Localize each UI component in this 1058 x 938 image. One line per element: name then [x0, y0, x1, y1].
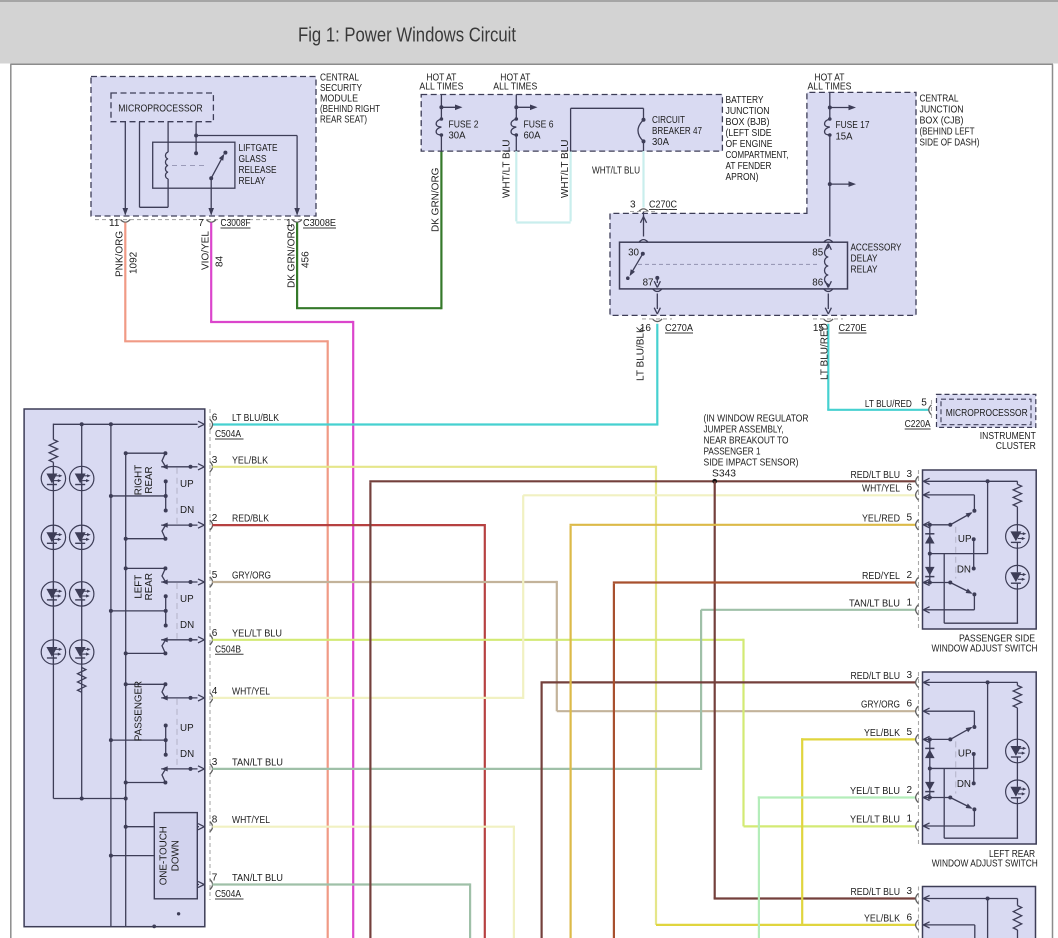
wire WHT/LT BLU CB47 to C270C: [643, 141, 645, 151]
UP/DN center pole: [164, 724, 168, 728]
svg-text:WHT/LT BLU: WHT/LT BLU: [502, 139, 513, 198]
wire PNK/ORG 1092 from pin 11: [124, 223, 126, 342]
connector C270E: [824, 319, 834, 322]
connector pin 6 YEL/BLK: [916, 920, 919, 930]
svg-text:3: 3: [630, 200, 636, 211]
svg-text:RELAY: RELAY: [851, 265, 878, 276]
svg-text:ACCESSORY: ACCESSORY: [851, 243, 902, 254]
third switch internal rail: [928, 898, 1018, 900]
svg-text:DN: DN: [957, 779, 971, 790]
svg-text:YEL/LT BLU: YEL/LT BLU: [850, 786, 900, 797]
toggle levers: [163, 566, 167, 570]
toggle output lines: [161, 466, 197, 468]
svg-text:456: 456: [300, 251, 311, 268]
svg-text:FUSE 17: FUSE 17: [836, 120, 870, 131]
svg-text:BREAKER 47: BREAKER 47: [652, 126, 702, 137]
svg-text:LT BLU/BLK: LT BLU/BLK: [232, 413, 279, 424]
switch internal feed rail: [928, 480, 1018, 482]
driver switch internal feed rail: [53, 423, 197, 425]
svg-text:SIDE OF DASH): SIDE OF DASH): [920, 138, 980, 149]
svg-text:(IN WINDOW REGULATOR: (IN WINDOW REGULATOR: [704, 414, 809, 425]
svg-text:11: 11: [109, 218, 120, 229]
liftgate relay switch lever: [211, 156, 223, 178]
svg-text:6: 6: [212, 413, 218, 424]
svg-text:WHT/LT BLU: WHT/LT BLU: [560, 139, 571, 198]
svg-text:PASSENGER 1: PASSENGER 1: [704, 447, 761, 458]
LED return: [1016, 804, 1018, 839]
central junction box CJB and accessory delay relay outline: [610, 92, 916, 315]
svg-text:7: 7: [212, 873, 218, 884]
relay pin 30 contact and lever: [641, 252, 645, 256]
wire VIO/YEL 84 from pin 7: [210, 223, 212, 323]
mechanical linkage dashed: [176, 699, 178, 768]
mid horizontal: [930, 553, 988, 555]
connector pin 7 TAN/LT BLU: [210, 879, 213, 889]
svg-text:REAR: REAR: [144, 466, 155, 493]
wire YEL/LT BLU driver pin 6 to left rear pin 1: [212, 639, 743, 641]
connector pin 1 YEL/LT BLU: [916, 821, 919, 831]
microprocessor U1 box (CSM): [111, 93, 213, 122]
svg-text:UP: UP: [180, 594, 194, 605]
svg-text:LEFT: LEFT: [134, 575, 145, 599]
connector pin 6 YEL/LT BLU: [210, 635, 213, 645]
pin 6 wire to top lever pivot: [928, 494, 974, 496]
svg-text:YEL/LT BLU: YEL/LT BLU: [232, 628, 282, 639]
svg-text:BOX (BJB): BOX (BJB): [726, 117, 770, 128]
relay internal linkage dashed: [638, 263, 820, 265]
svg-text:CLUSTER: CLUSTER: [996, 441, 1036, 452]
svg-text:YEL/BLK: YEL/BLK: [864, 913, 900, 924]
switch group LEFT feeds: [126, 567, 166, 569]
UP DN pole: [972, 752, 976, 756]
svg-text:3: 3: [212, 757, 218, 768]
wire TAN/LT BLU driver pin 7: [212, 883, 470, 885]
relay coil pins 85/86: [824, 240, 833, 243]
one-touch down outputs: [196, 826, 198, 828]
svg-text:15A: 15A: [836, 131, 853, 142]
svg-text:WINDOW ADJUST SWITCH: WINDOW ADJUST SWITCH: [932, 643, 1038, 654]
bottom toggle lever: [950, 798, 971, 809]
svg-text:S343: S343: [712, 469, 736, 480]
switch group PASSENGER feeds: [126, 683, 166, 685]
connector pin 3 RED/LT BLU: [916, 893, 919, 903]
connector line C3008 dashed: [95, 219, 316, 221]
connector pin 5 GRY/ORG: [210, 577, 213, 587]
svg-text:RED/YEL: RED/YEL: [862, 571, 900, 582]
pivot to pin 1: [973, 594, 975, 609]
mid horizontal: [930, 767, 988, 769]
svg-text:6: 6: [907, 482, 913, 493]
svg-text:UP: UP: [958, 534, 972, 545]
svg-text:5: 5: [212, 570, 218, 581]
svg-text:MODULE: MODULE: [320, 93, 358, 104]
wire RED/BLK driver pin 2: [212, 524, 485, 526]
svg-text:REAR: REAR: [144, 573, 155, 600]
mechanical linkage dashed: [176, 468, 178, 524]
toggle output lines: [161, 581, 197, 583]
mid feed vertical: [943, 769, 945, 838]
illumination LEDs: [1006, 525, 1030, 549]
svg-text:FUSE 2: FUSE 2: [449, 119, 479, 130]
svg-text:UP: UP: [180, 479, 194, 490]
junction dot on bottom edge: [152, 925, 156, 929]
svg-text:3: 3: [907, 469, 913, 480]
svg-text:CENTRAL: CENTRAL: [320, 72, 359, 83]
svg-text:DK GRN/ORG: DK GRN/ORG: [431, 167, 442, 232]
svg-text:GRY/ORG: GRY/ORG: [232, 571, 271, 582]
svg-text:AT FENDER: AT FENDER: [726, 161, 772, 172]
illumination resistor R2: [78, 668, 86, 693]
header bar: [0, 0, 1058, 64]
wire relay common to pin 7: [210, 178, 212, 214]
connector C270A: [653, 319, 663, 322]
svg-text:C270E: C270E: [839, 323, 867, 334]
svg-text:(LEFT SIDE: (LEFT SIDE: [726, 128, 772, 139]
switch group RIGHT feeds: [126, 452, 166, 454]
LED return: [1016, 589, 1018, 623]
svg-text:4: 4: [212, 686, 218, 697]
svg-text:30: 30: [628, 247, 639, 258]
svg-text:TAN/LT BLU: TAN/LT BLU: [232, 757, 283, 768]
driver master window switch box: [24, 409, 205, 927]
battery vertical from rail: [987, 481, 989, 553]
illumination LEDs: [1006, 739, 1030, 763]
svg-text:GLASS: GLASS: [239, 154, 267, 165]
one-touch down feeds: [126, 826, 155, 828]
svg-text:3: 3: [212, 455, 218, 466]
connector pin 6 LT BLU/BLK: [210, 419, 213, 429]
svg-text:85: 85: [812, 247, 823, 258]
mechanical linkage dashed: [955, 527, 957, 579]
fuse F17: [825, 119, 830, 135]
liftgate relay linkage dashed: [172, 165, 208, 167]
svg-text:YEL/LT BLU: YEL/LT BLU: [850, 815, 900, 826]
connector C504 dashed line: [209, 409, 211, 900]
svg-text:C504A: C504A: [215, 889, 241, 900]
svg-text:CIRCUIT: CIRCUIT: [652, 115, 685, 126]
svg-text:DOWN: DOWN: [171, 840, 182, 871]
svg-text:PNK/ORG: PNK/ORG: [115, 231, 126, 277]
wire micro to coil loop: [139, 122, 141, 208]
bottom toggle lever: [950, 583, 971, 594]
stray junction dot: [177, 912, 180, 915]
UP DN pole: [972, 537, 976, 541]
wire micro to relay contact: [195, 122, 197, 154]
svg-text:JUNCTION: JUNCTION: [726, 106, 770, 117]
svg-text:DELAY: DELAY: [851, 254, 878, 265]
svg-text:RELEASE: RELEASE: [239, 165, 277, 176]
svg-text:C3008F: C3008F: [221, 218, 251, 229]
svg-text:MICROPROCESSOR: MICROPROCESSOR: [118, 104, 202, 115]
svg-text:RELAY: RELAY: [239, 176, 266, 187]
svg-text:87: 87: [643, 277, 654, 288]
wire micro to pin 11: [124, 122, 126, 215]
svg-text:(BEHIND RIGHT: (BEHIND RIGHT: [320, 104, 380, 115]
central security module box: [91, 77, 316, 217]
liftgate relay coil L1: [167, 122, 169, 153]
svg-text:MICROPROCESSOR: MICROPROCESSOR: [946, 408, 1028, 419]
connector pin 3 YEL/BLK: [210, 462, 213, 472]
svg-text:RED/BLK: RED/BLK: [232, 514, 269, 525]
illumination LEDs D1-D8: [41, 466, 65, 490]
connector pin 6 WHT/YEL: [916, 490, 919, 500]
battery junction box BJB: [421, 95, 722, 152]
connector pin 2 YEL/LT BLU: [916, 792, 919, 802]
connector pin 6 GRY/ORG: [916, 706, 919, 716]
connector pin 5 YEL/BLK: [916, 734, 919, 744]
svg-text:C504B: C504B: [215, 644, 241, 655]
svg-text:C3008E: C3008E: [303, 218, 336, 229]
svg-text:30A: 30A: [652, 137, 669, 148]
top toggle lever: [950, 728, 971, 740]
svg-text:2: 2: [907, 785, 913, 796]
svg-text:OF ENGINE: OF ENGINE: [726, 139, 773, 150]
third switch resistor: [1013, 906, 1021, 931]
wire YEL/BLK left rear pin 5 branch: [801, 738, 803, 926]
wire GRY/ORG driver pin 5 to left rear pin 6: [212, 581, 557, 583]
connector pin 2 RED/BLK: [210, 520, 213, 530]
svg-text:30A: 30A: [449, 131, 466, 142]
diode chain: [929, 739, 931, 797]
fuse F17 feed wire: [829, 92, 831, 119]
fuse F6 feed wire: [515, 95, 517, 120]
pivot to pin 1: [973, 809, 975, 826]
connector C3008E pin 1: [292, 220, 302, 223]
toggle levers: [163, 451, 167, 455]
svg-text:REAR SEAT): REAR SEAT): [320, 114, 367, 125]
pin 2 wire: [928, 582, 950, 584]
svg-text:C270C: C270C: [649, 200, 677, 211]
accessory delay relay box: [620, 242, 848, 289]
svg-text:YEL/BLK: YEL/BLK: [864, 728, 900, 739]
connector pin 8 WHT/YEL: [210, 822, 213, 832]
illumination resistor R1: [52, 424, 54, 440]
circuit breaker CB47: [638, 120, 644, 142]
svg-text:DN: DN: [180, 620, 194, 631]
svg-text:UP: UP: [180, 723, 194, 734]
circuit breaker CB47 feed wire: [515, 151, 517, 221]
relay pin 87 wire to C270A: [656, 294, 658, 310]
svg-text:86: 86: [812, 277, 823, 288]
svg-text:RIGHT: RIGHT: [134, 465, 145, 495]
connector C270C: [639, 209, 649, 212]
svg-text:WHT/YEL: WHT/YEL: [862, 483, 900, 494]
driver switch pivot bus: [125, 453, 127, 926]
svg-text:YEL/RED: YEL/RED: [862, 513, 900, 524]
svg-text:PASSENGER: PASSENGER: [133, 681, 144, 741]
wire WHT/YEL driver pin 4 to passenger pin 6: [212, 697, 523, 699]
svg-text:CENTRAL: CENTRAL: [920, 94, 959, 105]
svg-text:LT BLU/BLK: LT BLU/BLK: [636, 326, 647, 381]
relay pin 87: [655, 276, 659, 280]
connector pin 5 YEL/RED: [916, 520, 919, 530]
svg-text:COMPARTMENT,: COMPARTMENT,: [726, 150, 789, 161]
pin 5 wire: [928, 524, 950, 526]
toggle levers: [163, 682, 167, 686]
illumination resistor: [1016, 481, 1018, 484]
instrument cluster box: [937, 394, 1036, 427]
svg-text:BATTERY: BATTERY: [726, 95, 764, 106]
svg-text:LIFTGATE: LIFTGATE: [239, 143, 278, 154]
svg-text:5: 5: [907, 512, 913, 523]
LED column 2 wire: [81, 424, 83, 798]
svg-text:WHT/LT BLU: WHT/LT BLU: [592, 166, 640, 177]
svg-text:RED/LT BLU: RED/LT BLU: [851, 671, 901, 682]
svg-text:8: 8: [212, 815, 218, 826]
svg-text:SIDE IMPACT SENSOR): SIDE IMPACT SENSOR): [704, 458, 799, 469]
svg-text:C220A: C220A: [905, 419, 931, 430]
svg-text:C270A: C270A: [665, 323, 693, 334]
svg-text:WINDOW ADJUST SWITCH: WINDOW ADJUST SWITCH: [932, 859, 1038, 870]
svg-text:ALL TIMES: ALL TIMES: [493, 82, 537, 93]
svg-text:6: 6: [907, 699, 913, 710]
svg-text:3: 3: [907, 670, 913, 681]
svg-text:1092: 1092: [129, 251, 140, 274]
svg-text:FUSE 6: FUSE 6: [524, 119, 554, 130]
svg-text:1: 1: [907, 814, 913, 825]
connector pin 3 RED/LT BLU: [916, 677, 919, 687]
LED column 1 wire: [52, 466, 54, 798]
svg-text:SECURITY: SECURITY: [320, 83, 362, 94]
svg-text:NEAR BREAKOUT TO: NEAR BREAKOUT TO: [704, 436, 789, 447]
svg-text:Fig 1: Power Windows Circuit: Fig 1: Power Windows Circuit: [298, 23, 516, 46]
wire RED/LT BLU trunk to passenger pin 3: [369, 482, 371, 938]
instrument cluster microprocessor U2 box: [941, 399, 1031, 425]
svg-text:3: 3: [907, 886, 913, 897]
wire TAN/LT BLU driver pin 3 to passenger pin 1: [212, 768, 701, 770]
svg-text:YEL/BLK: YEL/BLK: [232, 455, 268, 466]
switch internal feed rail: [928, 681, 1018, 683]
right rear window adjust switch box (cut off): [923, 887, 1036, 938]
svg-text:RED/LT BLU: RED/LT BLU: [851, 887, 901, 898]
svg-text:APRON): APRON): [726, 172, 759, 183]
svg-text:WHT/YEL: WHT/YEL: [232, 815, 270, 826]
fuse F2: [436, 119, 441, 135]
toggle output lines: [161, 697, 197, 699]
fuse 17 output wire with branch arrow: [829, 135, 831, 237]
wire LT BLU/RED C270E to instrument cluster: [827, 324, 829, 410]
svg-text:JUMPER ASSEMBLY,: JUMPER ASSEMBLY,: [704, 425, 784, 436]
wire DK GRN/ORG 456 from pin 1: [296, 223, 298, 309]
svg-text:ALL TIMES: ALL TIMES: [419, 82, 463, 93]
svg-text:BOX (CJB): BOX (CJB): [920, 116, 964, 127]
svg-text:RED/LT BLU: RED/LT BLU: [851, 470, 901, 481]
connector C3008F pin 7: [206, 220, 216, 223]
connector pin 4 WHT/YEL: [210, 693, 213, 703]
window adjust switch box: [923, 470, 1037, 629]
connector C220A: [929, 405, 932, 415]
top toggle lever: [950, 513, 971, 525]
svg-text:TAN/LT BLU: TAN/LT BLU: [232, 873, 283, 884]
wire relay NO contact to pin 1 feed: [196, 135, 297, 137]
third switch pin 6 wire: [928, 924, 975, 926]
wire C270C to relay pin 30: [643, 212, 645, 237]
svg-text:WHT/YEL: WHT/YEL: [232, 686, 270, 697]
svg-text:JUNCTION: JUNCTION: [920, 105, 964, 116]
wire WHT/YEL driver pin 8: [212, 826, 514, 828]
wire RED/LT BLU to left rear pin 3: [540, 682, 542, 938]
wire YEL/LT BLU left rear pin 2: [758, 796, 760, 938]
svg-text:UP: UP: [958, 749, 972, 760]
svg-text:GRY/ORG: GRY/ORG: [861, 700, 900, 711]
svg-text:C504A: C504A: [215, 429, 241, 440]
splice S343: [712, 479, 717, 484]
connector pin 3 RED/LT BLU: [916, 476, 919, 486]
illumination resistor: [1016, 682, 1018, 685]
svg-text:DN: DN: [180, 505, 194, 516]
svg-text:LT BLU/RED: LT BLU/RED: [865, 399, 912, 410]
svg-text:DN: DN: [180, 749, 194, 760]
svg-text:6: 6: [212, 628, 218, 639]
connector pin 3 TAN/LT BLU: [210, 764, 213, 774]
wire YEL/BLK driver pin 3 to right rear pin 6: [212, 466, 656, 468]
svg-text:DK GRN/ORG: DK GRN/ORG: [286, 223, 297, 288]
window adjust switch box: [923, 672, 1037, 844]
mechanical linkage dashed: [176, 583, 178, 639]
connector pin 1 TAN/LT BLU: [916, 605, 919, 615]
pin 5 wire: [928, 738, 950, 740]
svg-text:1: 1: [907, 597, 913, 608]
mechanical linkage dashed: [955, 741, 957, 793]
fuse F2 feed wire: [440, 95, 442, 120]
driver switch common rail: [110, 424, 112, 926]
mid feed vertical: [943, 554, 945, 623]
svg-text:60A: 60A: [524, 131, 541, 142]
svg-text:5: 5: [921, 398, 927, 409]
svg-text:2: 2: [907, 570, 913, 581]
svg-text:84: 84: [214, 255, 225, 267]
fuse F6: [511, 119, 516, 135]
svg-text:DN: DN: [957, 564, 971, 575]
UP/DN center pole: [164, 479, 168, 483]
svg-text:2: 2: [212, 513, 218, 524]
svg-text:TAN/LT BLU: TAN/LT BLU: [849, 598, 900, 609]
wire RED/LT BLU splice to third switch pin 3: [714, 481, 716, 898]
svg-text:(BEHIND LEFT: (BEHIND LEFT: [920, 127, 975, 138]
diode chain: [929, 525, 931, 583]
svg-text:7: 7: [198, 218, 204, 229]
LED return rail: [53, 798, 125, 800]
wire RED/YEL to passenger pin 2: [613, 584, 615, 938]
pin 2 wire: [928, 797, 950, 799]
UP/DN center pole: [164, 594, 168, 598]
one-touch down module box: [154, 813, 197, 899]
connector pin 2 RED/YEL: [916, 577, 919, 587]
pin 6 wire to top lever pivot: [928, 710, 974, 712]
liftgate glass release relay box: [153, 142, 235, 188]
wire LT BLU/BLK C270A to driver switch pin 6: [656, 324, 658, 425]
svg-text:VIO/YEL: VIO/YEL: [200, 231, 211, 270]
svg-text:6: 6: [907, 912, 913, 923]
svg-text:ALL TIMES: ALL TIMES: [808, 82, 852, 93]
relay pin 86 wire to C270E: [827, 294, 829, 310]
svg-text:5: 5: [907, 727, 913, 738]
connector C3008F pin 11: [121, 220, 131, 223]
battery vertical from rail: [987, 682, 989, 768]
wire YEL/RED to passenger pin 5: [569, 526, 571, 938]
svg-text:ONE-TOUCH: ONE-TOUCH: [159, 826, 170, 885]
svg-text:LT BLU/RED: LT BLU/RED: [820, 323, 831, 380]
diagram frame border: [10, 63, 1053, 65]
